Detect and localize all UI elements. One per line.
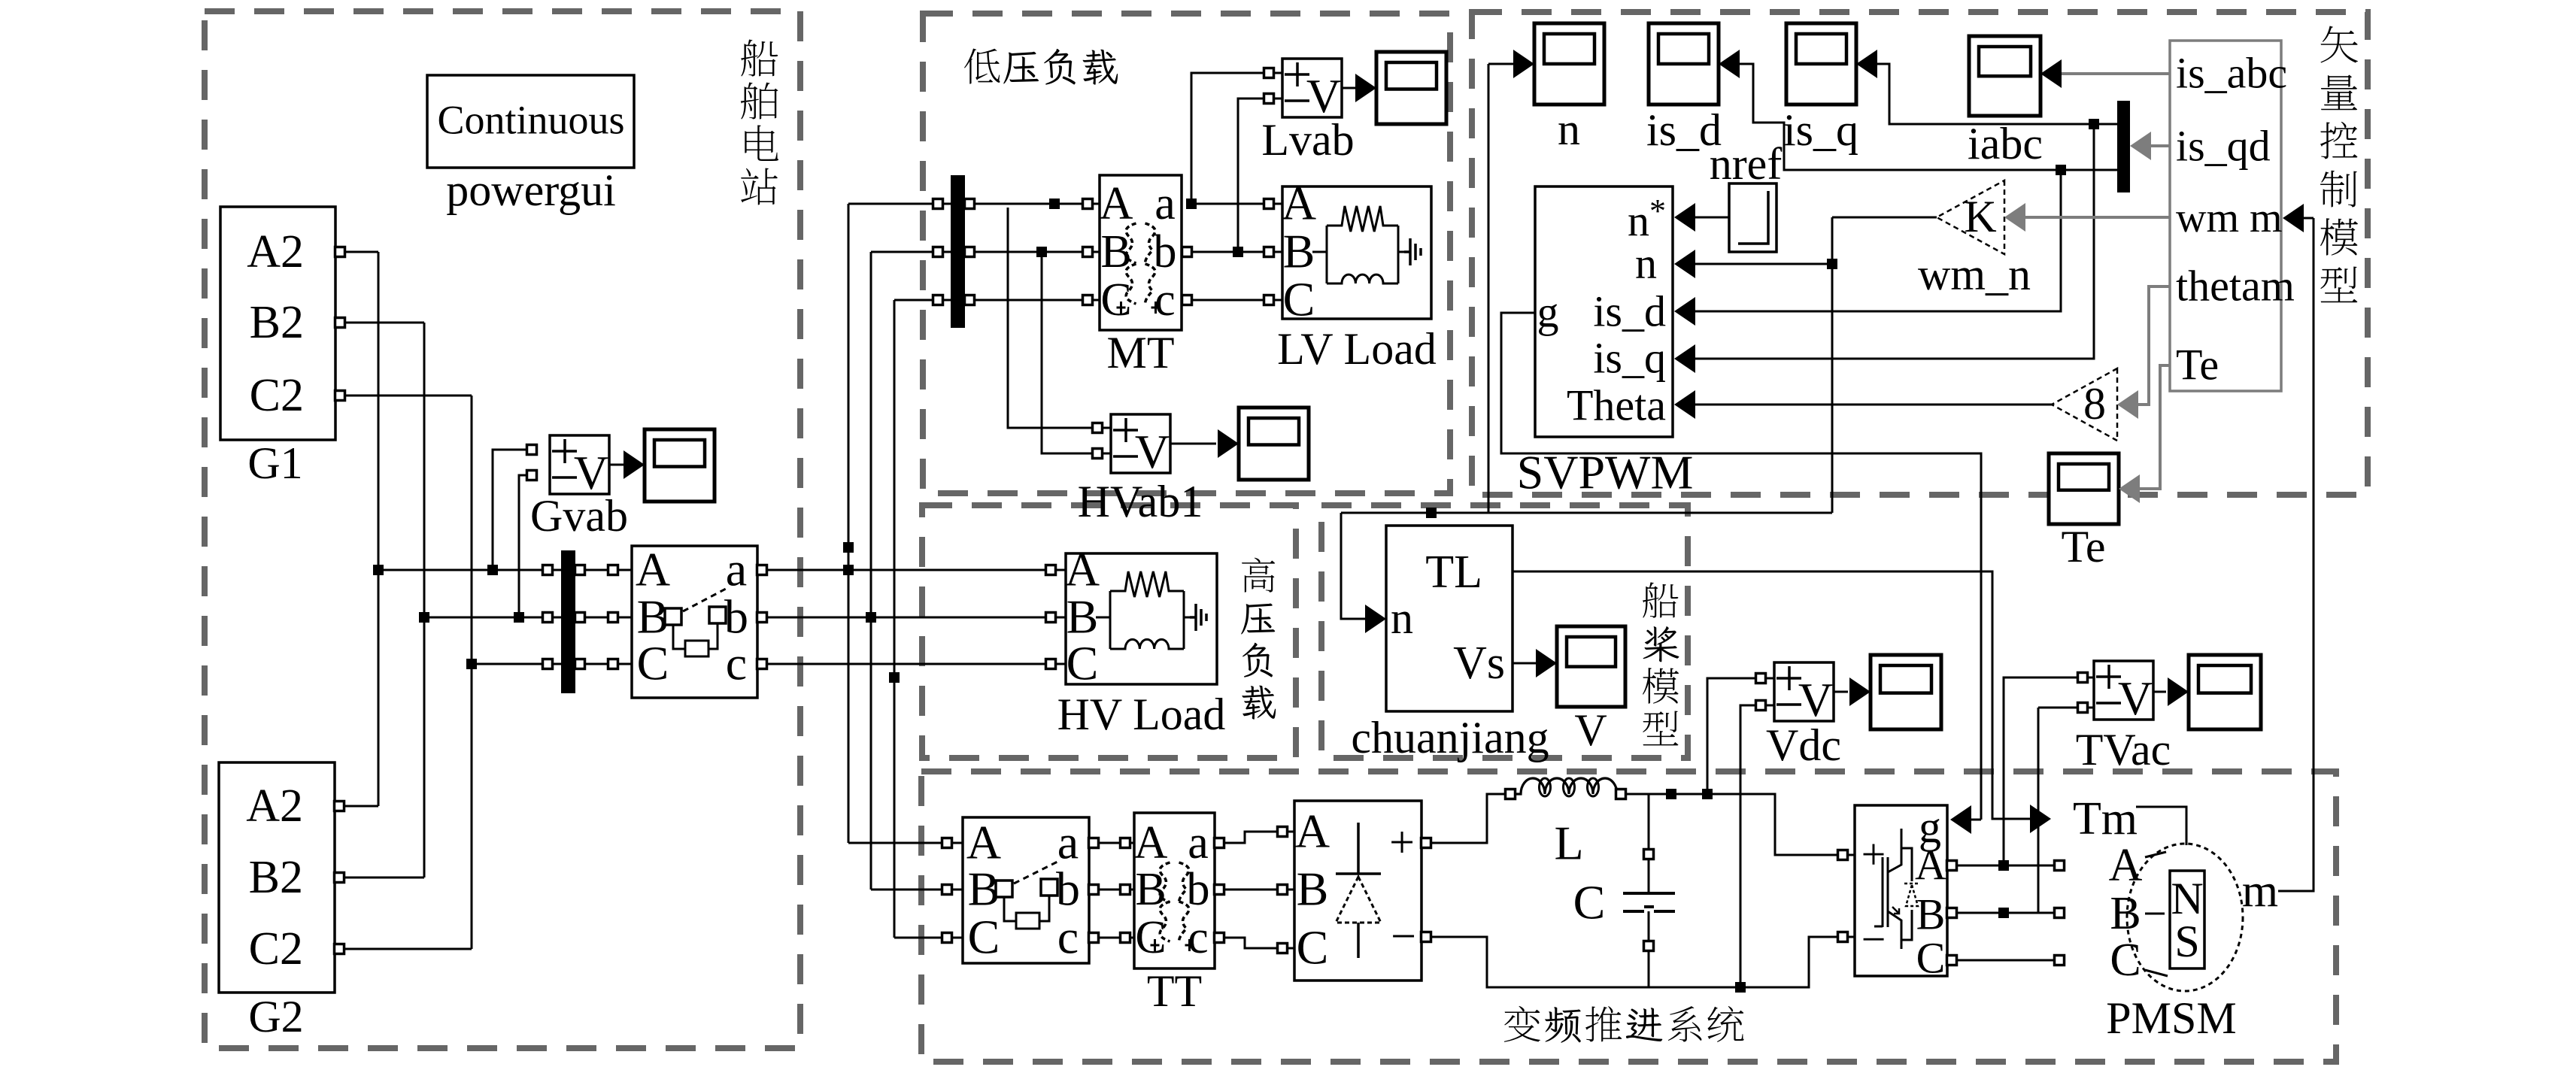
gain block K (wm_n) bbox=[1937, 180, 2004, 254]
wire Gvab output bbox=[609, 464, 624, 466]
gray arrow into Te scope bbox=[2119, 474, 2140, 503]
port Lvab - bbox=[1264, 94, 1274, 104]
svg-text:V: V bbox=[1574, 705, 1607, 755]
wire DC+ rail to inverter bbox=[1625, 794, 1838, 855]
junction C feeder/busbar row bbox=[466, 659, 477, 669]
port capacitor bottom bbox=[1644, 941, 1654, 951]
wire TT a to rectifier A bbox=[1224, 832, 1278, 843]
svg-text:is_d: is_d bbox=[1593, 287, 1666, 336]
svg-text:c: c bbox=[726, 636, 747, 690]
svg-text:is_q: is_q bbox=[1593, 334, 1666, 383]
svg-text:L: L bbox=[1554, 816, 1583, 869]
generator block G1 bbox=[220, 207, 335, 440]
port LV Load C bbox=[1264, 296, 1274, 305]
arrow SVPWM n bbox=[1674, 250, 1695, 278]
svg-text:A: A bbox=[1915, 841, 1946, 890]
arrow SVPWM is_d bbox=[1674, 297, 1695, 326]
scope V bbox=[1557, 626, 1625, 707]
voltage measurement Lvab bbox=[1282, 59, 1342, 117]
svg-text:A: A bbox=[636, 542, 670, 596]
junction dot on n wire bbox=[1426, 508, 1437, 518]
wire TT c to rectifier C bbox=[1224, 938, 1278, 948]
svg-text:a: a bbox=[726, 542, 747, 596]
wire is_d from demux bar bbox=[1740, 64, 2117, 170]
scope HVab1 bbox=[1239, 408, 1309, 480]
arrow into scope iabc bbox=[2040, 59, 2062, 88]
svg-text:A2: A2 bbox=[247, 226, 304, 277]
port capacitor top bbox=[1644, 850, 1654, 859]
wire is_d to SVPWM bbox=[1695, 170, 2061, 311]
wire G2 A2 to feeder bbox=[344, 805, 378, 808]
propeller block chuanjiang bbox=[1386, 526, 1513, 711]
port MT A bbox=[1083, 199, 1093, 209]
svg-text:wm_n: wm_n bbox=[1918, 250, 2031, 299]
voltage measurement HVab1 bbox=[1111, 414, 1170, 473]
svg-text:B2: B2 bbox=[250, 297, 304, 348]
label 低压负载 bbox=[964, 48, 1000, 83]
svg-text:A: A bbox=[1065, 542, 1100, 596]
wire nref to SVPWM n* bbox=[1695, 217, 1729, 219]
wire HVab1 + tap phase A bbox=[1008, 208, 1093, 428]
svg-text:G2: G2 bbox=[248, 992, 303, 1041]
svg-text:MT: MT bbox=[1107, 328, 1175, 377]
port TT c bbox=[1215, 933, 1224, 943]
scope Te bbox=[2049, 453, 2119, 524]
arrow into Vdc scope bbox=[1849, 677, 1871, 706]
port TT B bbox=[1121, 885, 1130, 895]
gray wire is_qd bbox=[2151, 144, 2170, 147]
svg-text:TVac: TVac bbox=[2076, 725, 2171, 774]
transformer MT bbox=[1100, 175, 1182, 330]
port TVac + bbox=[2078, 673, 2088, 683]
transformer TT bbox=[1134, 813, 1215, 968]
junction riser A / a row bbox=[843, 565, 854, 575]
load block HV Load bbox=[1066, 553, 1217, 684]
svg-text:LV Load: LV Load bbox=[1277, 324, 1437, 374]
port G1 A2 bbox=[335, 247, 345, 257]
wire G1 B2 to feeder bbox=[344, 322, 424, 324]
three-phase breaker 2 bbox=[963, 817, 1089, 963]
port breaker2 B bbox=[942, 885, 952, 895]
wire inverter C to PMSM bbox=[1956, 959, 2055, 962]
svg-text:C2: C2 bbox=[249, 923, 303, 974]
wire c row to HV Load C bbox=[766, 663, 1046, 665]
junction is_d branch bbox=[2056, 165, 2066, 175]
wire a row to HV Load A bbox=[766, 569, 1046, 571]
svg-text:C: C bbox=[1297, 920, 1329, 974]
region box ship power station 船舶电站 bbox=[205, 11, 800, 1048]
wire inverter A to PMSM bbox=[1956, 865, 2055, 867]
svg-text:A2: A2 bbox=[246, 780, 303, 832]
voltage measurement TVac bbox=[2094, 661, 2153, 720]
junction Lvab- tap bbox=[1233, 247, 1243, 257]
junction B feeder/busbar row bbox=[419, 612, 429, 623]
junction Gvab+ on A bbox=[487, 565, 498, 575]
svg-text:Continuous: Continuous bbox=[437, 97, 624, 142]
wire G2 C2 to feeder bbox=[344, 948, 472, 950]
svg-text:thetam: thetam bbox=[2176, 262, 2295, 311]
port L out bbox=[1616, 790, 1626, 799]
wire TVac + tap phase A bbox=[2004, 677, 2078, 865]
wire phase C to busbar G bbox=[472, 663, 543, 665]
junction Vdc- tap bbox=[1735, 982, 1746, 993]
svg-text:a: a bbox=[1154, 178, 1176, 229]
junction dot on MT A wire bbox=[1049, 199, 1060, 209]
port HV Load A bbox=[1046, 565, 1056, 575]
riser phase A bbox=[848, 204, 850, 843]
wire capacitor top riser bbox=[1648, 794, 1650, 850]
svg-text:HV Load: HV Load bbox=[1057, 690, 1226, 739]
scope Lvab bbox=[1376, 52, 1446, 124]
wire LV busbar to MT A bbox=[974, 203, 1083, 205]
label 船桨模型 bbox=[1643, 582, 1678, 617]
PMSM magnet NS bbox=[2170, 871, 2204, 968]
arrow into scope is_d bbox=[1719, 50, 1740, 78]
svg-text:A: A bbox=[1100, 178, 1133, 229]
port Vdc + bbox=[1756, 674, 1766, 683]
svg-text:C: C bbox=[1283, 272, 1315, 326]
svg-text:B: B bbox=[1916, 890, 1946, 939]
junction dot on DC+ rail bbox=[1666, 789, 1676, 799]
wire is_q from demux bar bbox=[1877, 64, 2117, 124]
svg-text:Vdc: Vdc bbox=[1766, 720, 1841, 770]
port Lvab + bbox=[1264, 68, 1274, 78]
svg-text:c: c bbox=[1154, 274, 1176, 326]
region box vector control model 矢量控制模型 bbox=[1472, 12, 2368, 495]
wire b row to HV Load B bbox=[766, 617, 1046, 619]
junction HVab1- tap on B bbox=[1036, 247, 1047, 257]
port rectifier + bbox=[1422, 838, 1431, 848]
port PMSM C bbox=[2055, 956, 2065, 965]
svg-text:PMSM: PMSM bbox=[2106, 993, 2236, 1043]
port G2 A2 bbox=[335, 802, 344, 811]
svg-text:−: − bbox=[1391, 911, 1416, 961]
wire riser C to breaker2 bbox=[894, 937, 942, 939]
wire G2 B2 to feeder bbox=[344, 877, 424, 879]
port HV Load B bbox=[1046, 613, 1056, 623]
port PMSM B bbox=[2055, 908, 2065, 918]
gray arrow into K bbox=[2004, 203, 2025, 232]
wire riser C to LV busbar bbox=[894, 299, 933, 302]
wire n vertical feeder bbox=[1831, 217, 1834, 513]
region box HV load 高压负载 bbox=[922, 505, 1296, 758]
svg-text:V: V bbox=[1135, 425, 1170, 478]
port G2 B2 bbox=[335, 873, 344, 883]
svg-text:n: n bbox=[1635, 239, 1657, 288]
controller block SVPWM bbox=[1535, 186, 1673, 437]
svg-text:b: b bbox=[1154, 226, 1177, 277]
svg-text:B: B bbox=[2110, 888, 2141, 939]
port HVab1 + bbox=[1093, 423, 1103, 433]
svg-text:Theta: Theta bbox=[1567, 381, 1666, 430]
svg-text:+: + bbox=[1389, 817, 1415, 867]
port breaker1 C bbox=[608, 659, 618, 669]
three-phase breaker 1 bbox=[632, 546, 757, 698]
svg-text:A: A bbox=[2109, 840, 2143, 891]
wire Vs output bbox=[1513, 662, 1537, 665]
port MT B bbox=[1083, 247, 1093, 257]
svg-text:HVab1: HVab1 bbox=[1078, 477, 1203, 526]
svg-text:Gvab: Gvab bbox=[530, 491, 628, 541]
wire LV busbar to MT B bbox=[974, 251, 1083, 253]
arrow n into chuanjiang bbox=[1365, 605, 1386, 633]
arrow g into inverter bbox=[1950, 805, 1971, 834]
svg-text:g: g bbox=[1537, 288, 1559, 337]
svg-text:C2: C2 bbox=[250, 370, 304, 421]
scope Vdc bbox=[1871, 655, 1941, 729]
svg-text:is_q: is_q bbox=[1783, 105, 1858, 155]
port HVab1 - bbox=[1093, 449, 1103, 459]
svg-text:c: c bbox=[1188, 912, 1209, 963]
bus selector block m demux bbox=[2170, 41, 2281, 391]
wire G1 C2 to feeder bbox=[344, 395, 472, 397]
wire Vdc output bbox=[1834, 691, 1848, 693]
port MT b bbox=[1182, 247, 1192, 257]
svg-text:wm m: wm m bbox=[2176, 195, 2283, 241]
gray wire wm to K bbox=[2025, 216, 2170, 219]
scope is_d bbox=[1649, 23, 1719, 105]
arrow into HVab1 scope bbox=[1218, 429, 1239, 458]
block powergui (Continuous) bbox=[427, 75, 634, 168]
wire A to motor bbox=[2145, 852, 2166, 857]
inverter IGBT symbol bbox=[1874, 857, 1888, 927]
wire riser B to LV busbar bbox=[871, 251, 933, 253]
svg-text:C: C bbox=[637, 636, 669, 690]
wire TL to Tm bbox=[1513, 571, 2031, 819]
busbar demux is_qd bbox=[2117, 101, 2130, 192]
port MT C bbox=[1083, 296, 1093, 305]
riser phase C bbox=[894, 300, 896, 938]
svg-text:Tm: Tm bbox=[2073, 793, 2138, 844]
wire n horizontal to chuanjiang bbox=[1341, 512, 1832, 514]
svg-text:Te: Te bbox=[2061, 522, 2105, 571]
wire LV busbar to MT C bbox=[974, 299, 1083, 302]
rectifier diode symbol bbox=[1336, 823, 1381, 958]
port inverter - bbox=[1838, 932, 1848, 942]
arrow SVPWM is_q bbox=[1674, 344, 1695, 373]
svg-text:n: n bbox=[1391, 593, 1413, 643]
port TT C bbox=[1121, 933, 1130, 943]
arrow SVPWM Theta bbox=[1674, 390, 1695, 419]
svg-text:C: C bbox=[968, 910, 1000, 963]
rectifier bridge block bbox=[1294, 801, 1422, 981]
svg-text:iabc: iabc bbox=[1968, 119, 2043, 168]
svg-text:c: c bbox=[1057, 910, 1079, 963]
label 船舶电站 bbox=[741, 39, 778, 76]
port MT c bbox=[1182, 296, 1192, 305]
wire Gvab - tap phase B bbox=[519, 475, 527, 617]
wire K output bbox=[1832, 217, 1937, 219]
svg-text:V: V bbox=[1798, 673, 1833, 726]
wire MT a to LV Load A bbox=[1191, 203, 1264, 205]
svg-text:A: A bbox=[1295, 804, 1330, 857]
junction is_q branch bbox=[2089, 119, 2099, 129]
port TT a bbox=[1215, 838, 1224, 848]
region box LV load 低压负载 bbox=[923, 14, 1450, 493]
wire Lvab output bbox=[1342, 87, 1356, 89]
svg-text:C: C bbox=[1916, 934, 1946, 983]
wire Vdc - riser bbox=[1740, 705, 1756, 987]
svg-text:A: A bbox=[1282, 176, 1316, 229]
wire Vdc + riser bbox=[1707, 678, 1756, 794]
port TT b bbox=[1215, 885, 1224, 895]
gray wire Te bbox=[2140, 365, 2170, 489]
voltage measurement Vdc bbox=[1774, 662, 1834, 721]
generator block G2 bbox=[219, 762, 335, 993]
port G1 C2 bbox=[335, 391, 345, 401]
arrow into Lvab scope bbox=[1355, 74, 1376, 102]
svg-text:is_qd: is_qd bbox=[2176, 122, 2271, 171]
svg-text:TT: TT bbox=[1147, 966, 1202, 1016]
wire phase A to busbar G bbox=[378, 569, 543, 571]
arrow into Gvab scope bbox=[624, 450, 645, 479]
svg-text:a: a bbox=[1188, 817, 1209, 868]
wire g arrow stub bbox=[1971, 819, 1981, 821]
junction dot on B bbox=[1998, 908, 2009, 918]
svg-text:m: m bbox=[2242, 865, 2278, 917]
port LV Load B bbox=[1264, 247, 1274, 257]
port breaker1 B bbox=[608, 613, 618, 623]
svg-text:chuanjiang: chuanjiang bbox=[1351, 713, 1549, 762]
svg-text:B: B bbox=[1067, 590, 1099, 643]
gray arrow into 8 bbox=[2117, 390, 2138, 419]
scope iabc bbox=[1969, 36, 2040, 116]
busbar LV bbox=[951, 175, 965, 328]
port inverter B bbox=[1947, 908, 1957, 918]
gain block 8 bbox=[2052, 368, 2117, 441]
scope is_q bbox=[1786, 23, 1856, 105]
port+junction MT a bbox=[1186, 199, 1197, 209]
svg-text:Lvab: Lvab bbox=[1261, 115, 1354, 165]
wire TVac output bbox=[2153, 691, 2166, 693]
busbar main station bbox=[561, 550, 575, 693]
wire n into chuanjiang bbox=[1341, 513, 1366, 619]
svg-text:b: b bbox=[724, 590, 748, 643]
port G2 C2 bbox=[335, 944, 344, 954]
wire C to motor bbox=[2145, 970, 2168, 976]
capacitor C bbox=[1623, 892, 1675, 895]
svg-text:Vs: Vs bbox=[1453, 638, 1505, 689]
svg-text:8: 8 bbox=[2083, 379, 2106, 429]
svg-text:B: B bbox=[1283, 224, 1315, 277]
port Gvab + bbox=[527, 445, 537, 455]
scope Gvab bbox=[645, 429, 715, 502]
wire Gvab + tap phase A bbox=[493, 450, 527, 570]
wire n to SVPWM input bbox=[1695, 263, 1832, 265]
svg-text:S: S bbox=[2174, 917, 2199, 966]
wire riser A to breaker2 bbox=[848, 842, 942, 844]
port inverter A bbox=[1947, 861, 1957, 871]
svg-text:b: b bbox=[1187, 864, 1210, 915]
wire DC- rail to inverter bbox=[1431, 937, 1838, 987]
port breaker2 A bbox=[942, 838, 952, 848]
wire g from SVPWM to inverter bbox=[1501, 313, 1981, 820]
gray wire thetam to 8 bbox=[2138, 286, 2170, 405]
region box propeller model 船桨模型 bbox=[1321, 505, 1688, 758]
svg-text:B: B bbox=[1297, 862, 1329, 915]
region box VFD propulsion 变频推进系统 bbox=[921, 771, 2336, 1062]
wire MT c to LV Load C bbox=[1191, 299, 1264, 302]
gray wire is_abc bbox=[2062, 72, 2170, 75]
wire inverter B to PMSM bbox=[1956, 912, 2055, 914]
port rectifier C bbox=[1278, 944, 1288, 953]
arrow m into demux bbox=[2283, 204, 2304, 232]
svg-text:C: C bbox=[1573, 875, 1606, 929]
label 变频推进系统 bbox=[1504, 1006, 1540, 1042]
port inverter + bbox=[1838, 850, 1848, 860]
wire n riser to scope n bbox=[1488, 64, 1490, 513]
svg-text:B2: B2 bbox=[249, 852, 303, 903]
junction TVac+ tap on A bbox=[1998, 860, 2009, 871]
wire 8 output to Theta bbox=[1695, 404, 2052, 406]
svg-text:TL: TL bbox=[1425, 547, 1482, 598]
svg-text:powergui: powergui bbox=[446, 165, 616, 215]
junction dot near c row bbox=[889, 672, 900, 683]
svg-text:b: b bbox=[1056, 862, 1080, 915]
svg-text:A: A bbox=[966, 815, 1001, 868]
svg-text:V: V bbox=[2118, 671, 2153, 725]
arrow into scope V bbox=[1536, 649, 1557, 677]
port inverter C bbox=[1947, 956, 1957, 965]
port TT A bbox=[1121, 838, 1130, 848]
junction riser B / b row bbox=[866, 612, 876, 623]
arrow into TVac scope bbox=[2168, 677, 2189, 706]
port HV Load C bbox=[1046, 659, 1056, 669]
wire Lvab - tap bbox=[1238, 99, 1264, 252]
junction A feeder/busbar row bbox=[373, 565, 384, 575]
scope n bbox=[1534, 23, 1604, 105]
inverter bridge block bbox=[1855, 805, 1947, 976]
wire Lvab + tap bbox=[1191, 73, 1264, 204]
wire riser A to LV busbar bbox=[848, 203, 933, 205]
wire MT b to LV Load B bbox=[1191, 251, 1264, 253]
junction n to SVPWM bbox=[1827, 259, 1837, 269]
port PMSM A bbox=[2055, 861, 2065, 871]
junction Gvab- on B bbox=[514, 612, 524, 623]
PMSM motor ellipse bbox=[2127, 844, 2243, 991]
junction dot on riser A bbox=[843, 542, 854, 553]
arrow into scope n bbox=[1513, 50, 1534, 78]
gray arrow is_qd into busbar bbox=[2130, 132, 2151, 160]
svg-text:K: K bbox=[1964, 192, 1996, 241]
label 矢量控制模型 bbox=[2320, 26, 2358, 63]
port TVac - bbox=[2078, 703, 2088, 713]
svg-text:G1: G1 bbox=[247, 438, 302, 488]
junction Vdc+ tap bbox=[1702, 789, 1713, 799]
feeder phase B vertical bbox=[423, 323, 426, 877]
arrow SVPWM n* bbox=[1674, 203, 1695, 232]
wire Tm to motor bbox=[2136, 807, 2186, 845]
wire phase B to busbar G bbox=[424, 617, 543, 619]
svg-text:is_abc: is_abc bbox=[2176, 49, 2287, 98]
port Gvab - bbox=[527, 471, 537, 480]
wire is_q to SVPWM bbox=[1695, 124, 2094, 359]
label 高压负载 bbox=[1242, 558, 1275, 593]
port Vdc - bbox=[1756, 701, 1766, 711]
reference block nref bbox=[1729, 183, 1776, 252]
feeder phase C vertical bbox=[471, 396, 473, 949]
wire TVac - tap phase B bbox=[2037, 708, 2040, 913]
feeder phase A vertical bbox=[378, 252, 380, 806]
scope TVac bbox=[2189, 655, 2261, 729]
port G1 B2 bbox=[335, 318, 345, 328]
port rectifier A bbox=[1278, 827, 1288, 837]
port rectifier - bbox=[1422, 932, 1431, 942]
svg-text:a: a bbox=[1057, 815, 1079, 868]
wire B to motor bbox=[2145, 913, 2165, 915]
port breaker2 C bbox=[942, 933, 952, 943]
wire TT b to rectifier B bbox=[1224, 889, 1278, 891]
